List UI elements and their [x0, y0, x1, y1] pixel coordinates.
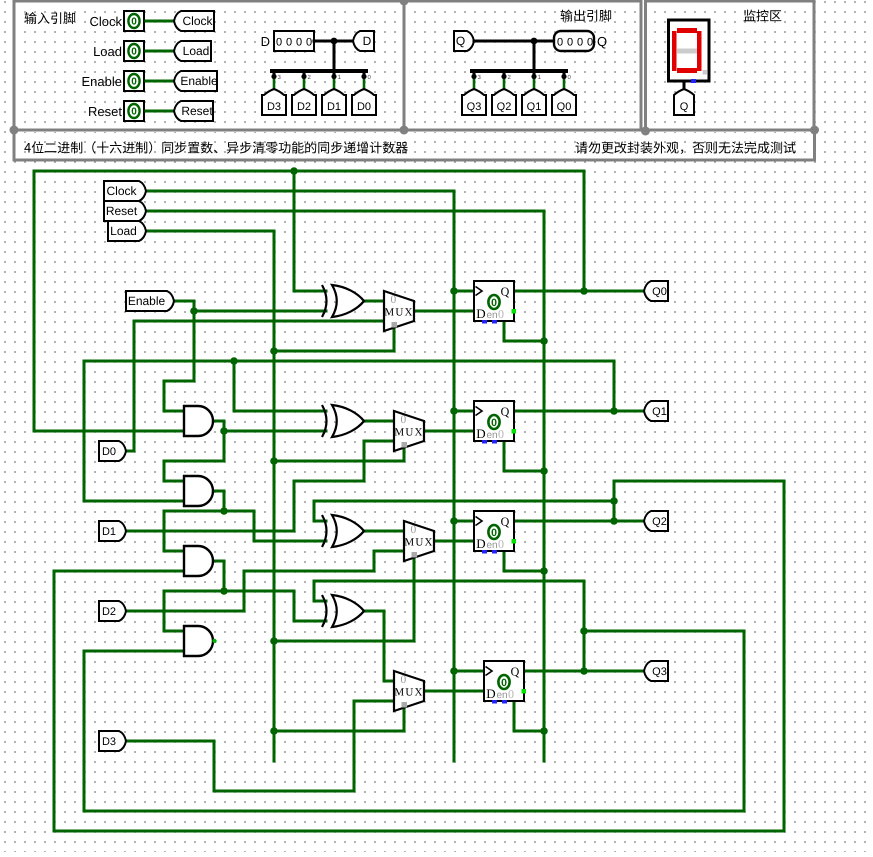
svg-text:0: 0 — [306, 37, 312, 49]
svg-text:D: D — [363, 34, 372, 48]
svg-text:0: 0 — [411, 524, 417, 536]
svg-text:0: 0 — [401, 414, 407, 426]
AND gate A1 — [184, 406, 213, 436]
wire AND1 out branch to XOR1 input B — [224, 430, 326, 433]
wire Reset distribution — [148, 211, 544, 761]
XOR gate X2 — [322, 515, 327, 547]
splitter (D bus) — [333, 41, 336, 71]
tunnel Enable (panel1) — [174, 71, 217, 91]
svg-text:0: 0 — [286, 37, 292, 49]
svg-text:0: 0 — [296, 37, 302, 49]
svg-text:MUX: MUX — [394, 687, 423, 699]
flip-flop FF2 (Den0) — [474, 511, 514, 551]
svg-text:MUX: MUX — [384, 307, 413, 319]
wire AND3 out branch to AND4 input A — [164, 591, 224, 631]
junction node (274,731) — [270, 727, 278, 735]
wire Clock distribution — [148, 191, 454, 761]
svg-text:en: en — [486, 430, 497, 441]
junction node (584,291) — [580, 287, 588, 295]
svg-text:0: 0 — [557, 37, 563, 49]
tunnel Q1 (panel2) — [522, 89, 546, 115]
wire FF1 clear to reset — [504, 441, 544, 471]
tunnel D0 — [99, 441, 126, 461]
svg-text:Clock: Clock — [89, 14, 122, 29]
tunnel D0 — [352, 89, 376, 115]
svg-text:Reset: Reset — [106, 204, 138, 218]
tunnel Load (schematic) — [108, 221, 146, 241]
svg-text:0: 0 — [508, 687, 514, 701]
panel frame: input pins section — [14, 1, 404, 130]
svg-text:Reset: Reset — [181, 104, 213, 118]
junction node (544,341) — [540, 337, 548, 345]
AND gate A2 — [184, 476, 213, 506]
svg-text:Q2: Q2 — [652, 516, 667, 528]
wire Load distribution — [148, 231, 274, 761]
wire load to MUX0 select — [274, 329, 394, 351]
wire Q3 feedback to XOR3 input A (upper) — [314, 581, 584, 671]
node A4 output (unconnected) — [212, 639, 216, 643]
svg-text:D1: D1 — [327, 101, 341, 113]
wire Q0 branch down to XOR0 input A — [294, 171, 326, 291]
svg-text:Q2: Q2 — [497, 101, 512, 113]
svg-text:0: 0 — [131, 47, 137, 58]
tunnel Q0 (schematic) — [644, 281, 668, 301]
svg-text:Enable: Enable — [180, 74, 218, 88]
junction node (454,521) — [450, 517, 458, 525]
tunnel Enable (schematic) — [126, 291, 174, 311]
svg-text:D: D — [476, 426, 485, 441]
svg-text:Q0: Q0 — [557, 101, 572, 113]
svg-text:MUX: MUX — [404, 537, 433, 549]
wire Q0 row (FF0.Q to tunnel Q0) — [514, 290, 644, 293]
junction node (234,361) — [230, 357, 238, 365]
wire 7seg input — [683, 82, 686, 89]
wire pin Enable to tunnel — [146, 80, 172, 83]
svg-text:0: 0 — [498, 537, 504, 551]
svg-text:Q3: Q3 — [652, 666, 667, 678]
svg-text:0: 0 — [498, 427, 504, 441]
junction node (454,291) — [450, 287, 458, 295]
panel frame: output pins section — [404, 1, 641, 130]
tunnel D1 — [322, 89, 346, 115]
svg-text:Q: Q — [680, 101, 689, 113]
wire Enable to XOR0 input B and AND1 input A — [164, 301, 194, 411]
svg-text:D3: D3 — [102, 736, 116, 748]
flip-flop FF1 (Den0) — [474, 401, 514, 441]
wire Q1 row (FF1.Q to tunnel Q1) — [514, 410, 644, 413]
tunnel D2 — [99, 601, 126, 621]
svg-text:Reset: Reset — [88, 104, 122, 119]
wire Q2 row (FF2.Q to tunnel Q2) — [514, 520, 644, 523]
junction node (274,461) — [270, 457, 278, 465]
wire Q3 feedback bottom loop to AND4 input B — [84, 631, 744, 811]
wire D2 to MUX2 input 1 — [126, 551, 404, 611]
splitter (Q bus) — [533, 41, 536, 71]
junction node (584,671) — [580, 667, 588, 675]
MUX M0 — [384, 291, 414, 331]
wire clock to FF0 — [454, 290, 474, 293]
svg-text:Clock: Clock — [182, 14, 213, 28]
svg-text:0: 0 — [577, 37, 583, 49]
tunnel Reset (schematic) — [104, 201, 146, 221]
svg-text:Load: Load — [110, 224, 137, 238]
AND gate A3 — [184, 546, 213, 576]
panel titles — [25, 12, 37, 24]
svg-text:0: 0 — [401, 674, 407, 686]
svg-text:0: 0 — [567, 37, 573, 49]
wire AND2 out to XOR2 input B — [214, 491, 326, 541]
tunnel Q0 (panel2) — [552, 89, 576, 115]
junction node (454,671) — [450, 667, 458, 675]
svg-text:D0: D0 — [102, 446, 116, 458]
wire clock to FF1 — [454, 410, 474, 413]
wire XOR0 out to MUX0 — [362, 300, 384, 303]
flip-flop FF0 (Den0) — [474, 281, 514, 321]
wire D3 to MUX3 input 1 — [126, 701, 394, 791]
caption text right — [576, 142, 588, 154]
wire XOR1 out to MUX1 — [362, 420, 394, 423]
tunnel D3 — [99, 731, 126, 751]
svg-text:0: 0 — [131, 17, 137, 28]
wire Q1 branch to XOR1 input A — [234, 361, 326, 411]
svg-text:Load: Load — [93, 44, 122, 59]
junction node (614,521) — [610, 517, 618, 525]
XOR gate X0 — [322, 285, 327, 317]
svg-text:0: 0 — [501, 677, 507, 689]
junction node (454,411) — [450, 407, 458, 415]
wire D pin to D tunnel — [314, 40, 352, 43]
junction node (274,351) — [270, 347, 278, 355]
junction node (614,411) — [610, 407, 618, 415]
wire FF2 clear to reset — [504, 551, 544, 571]
wire Q2 feedback right loop down to bottom and AND3 input B — [54, 481, 784, 831]
svg-text:0: 0 — [491, 527, 497, 539]
svg-text:Q: Q — [456, 34, 465, 48]
svg-text:Clock: Clock — [106, 184, 137, 198]
wire AND3 out to XOR3 input B — [224, 591, 326, 621]
wire Enable branch to XOR0 input B — [194, 310, 326, 313]
junction node (194,311) — [190, 307, 198, 315]
junction node (224,591) — [220, 587, 228, 595]
caption text left — [24, 143, 31, 153]
wire D0 to MUX0 input 1 — [126, 321, 384, 451]
tunnel D2 — [292, 89, 316, 115]
wire AND1 out to XOR1 input B and AND2 input A — [164, 421, 224, 481]
svg-text:0: 0 — [131, 107, 137, 118]
wire load to MUX1 select — [274, 449, 404, 461]
tunnel Load (panel1) — [174, 41, 211, 61]
XOR gate X1 — [322, 405, 327, 437]
svg-text:D1: D1 — [102, 526, 116, 538]
tunnel Q (panel3) — [674, 89, 694, 115]
tunnel Q3 (schematic) — [644, 661, 668, 681]
svg-text:D: D — [476, 306, 485, 321]
wire clock to FF2 — [454, 520, 474, 523]
node Q trunk junction — [531, 38, 538, 45]
panel frame: monitor section — [646, 1, 815, 131]
wire Q2 branch to XOR2 input A — [314, 501, 614, 521]
svg-text:D: D — [476, 536, 485, 551]
wire MUX0 out to FF0.D — [414, 310, 474, 313]
junction node (584,631) — [580, 627, 588, 635]
svg-text:0: 0 — [498, 307, 504, 321]
XOR gate X3 — [322, 595, 327, 627]
frame joint dots — [400, 0, 409, 6]
svg-text:Q1: Q1 — [527, 101, 542, 113]
wire Q1 feedback (up, left, down to AND2 input B) — [84, 361, 614, 501]
tunnel Q1 (schematic) — [644, 401, 668, 421]
tunnel Q2 (panel2) — [492, 89, 516, 115]
flip-flop FF3 (Den0) — [484, 661, 524, 701]
tunnel Q2 (schematic) — [644, 511, 668, 531]
svg-text:0: 0 — [491, 297, 497, 309]
AND gate A4 — [184, 626, 213, 656]
tunnel Q3 (panel2) — [462, 89, 486, 115]
svg-text:0: 0 — [491, 417, 497, 429]
svg-text:0: 0 — [131, 77, 137, 88]
svg-text:0: 0 — [391, 294, 397, 306]
wire pin Reset to tunnel — [146, 110, 172, 113]
wire load to MUX2 select — [274, 559, 414, 641]
wire MUX2 out to FF2.D — [434, 540, 474, 543]
output pin Q (4-bit) — [554, 31, 594, 51]
wire pin Clock to tunnel — [146, 20, 172, 23]
junction node (224,431) — [220, 427, 228, 435]
svg-text:Q0: Q0 — [652, 286, 667, 298]
wire Q0 feedback loop (up, across top, down left side, to AND1 input B) — [34, 171, 584, 431]
svg-text:Q: Q — [501, 515, 510, 529]
svg-text:D3: D3 — [267, 101, 281, 113]
tunnel D3 — [262, 89, 286, 115]
svg-text:D2: D2 — [102, 606, 116, 618]
MUX M1 — [394, 411, 424, 451]
svg-text:D2: D2 — [297, 101, 311, 113]
svg-text:Q: Q — [501, 405, 510, 419]
svg-text:Q1: Q1 — [652, 406, 667, 418]
node D trunk junction — [331, 38, 338, 45]
svg-text:D0: D0 — [357, 101, 371, 113]
wire XOR2 out to MUX2 — [362, 530, 404, 533]
junction node (544,731) — [540, 727, 548, 735]
tunnel Clock (panel1) — [174, 11, 214, 31]
tunnel Q (source, panel2) — [454, 31, 474, 51]
wire Q3 row (FF3.Q to tunnel Q3) — [524, 670, 644, 673]
panel frame: caption bar — [14, 130, 815, 160]
junction node (544,471) — [540, 467, 548, 475]
wire AND2 out branch to AND3 input A — [164, 511, 224, 551]
wire Q tunnel to Q pin — [474, 40, 554, 43]
svg-text:en: en — [486, 310, 497, 321]
tunnel D — [353, 31, 374, 51]
svg-text:Q3: Q3 — [467, 101, 482, 113]
svg-text:D: D — [486, 686, 495, 701]
svg-text:0: 0 — [587, 37, 593, 49]
tunnel D1 — [99, 521, 126, 541]
wire load to MUX3 select — [274, 709, 404, 731]
svg-text:Enable: Enable — [128, 294, 166, 308]
MUX M2 — [404, 521, 434, 561]
svg-text:Load: Load — [183, 44, 210, 58]
tunnel Clock (schematic) — [104, 181, 146, 201]
7-segment display U1 — [669, 20, 710, 81]
svg-text:MUX: MUX — [394, 427, 423, 439]
junction node (544,571) — [540, 567, 548, 575]
MUX M3 — [394, 671, 424, 711]
wire pin Load to tunnel — [146, 50, 172, 53]
svg-text:0: 0 — [276, 37, 282, 49]
svg-text:Q: Q — [501, 285, 510, 299]
junction node (614,501) — [610, 497, 618, 505]
wire FF0 clear to reset — [504, 321, 544, 341]
tunnel Reset (panel1) — [174, 101, 213, 121]
svg-text:en: en — [486, 540, 497, 551]
wire MUX1 out to FF1.D — [424, 430, 474, 433]
junction node (274,641) — [270, 637, 278, 645]
junction node (294,171) — [290, 167, 298, 175]
wire MUX3 out to FF3.D — [424, 690, 484, 693]
wire D1 to MUX1 input 1 — [126, 441, 394, 531]
svg-text:D: D — [261, 34, 270, 49]
junction node (224,511) — [220, 507, 228, 515]
svg-text:en: en — [496, 690, 507, 701]
wire XOR3 out to MUX3 input 0 — [362, 611, 394, 681]
svg-text:Enable: Enable — [82, 74, 122, 89]
wire clock to FF3 — [454, 670, 484, 673]
wire FF3 clear to reset — [514, 701, 544, 731]
wire AND3 out to XOR3 input A — [214, 561, 224, 591]
svg-text:Q: Q — [597, 34, 607, 49]
svg-text:Q: Q — [511, 665, 520, 679]
